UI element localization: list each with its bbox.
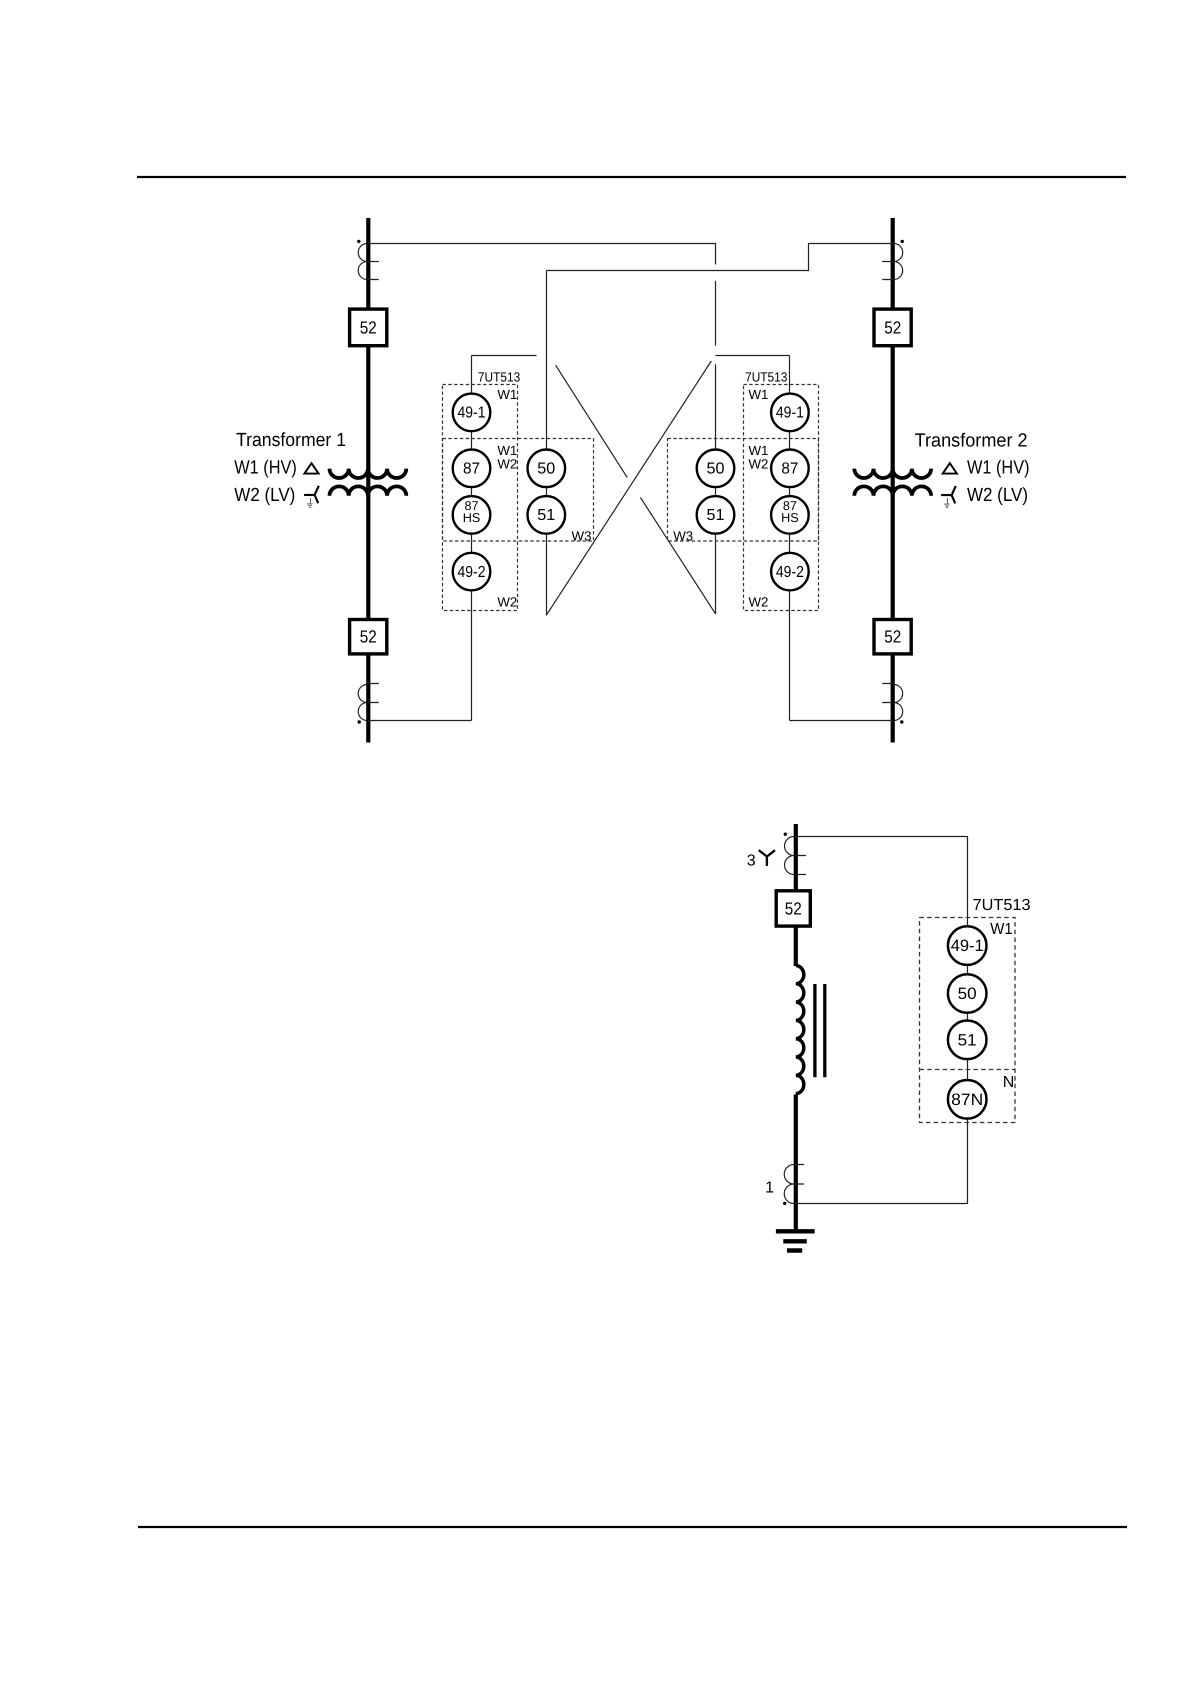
CT 1 bottom: polarity dot <box>358 720 361 723</box>
CT 2 top: arcs <box>894 244 903 280</box>
svg-text:W2: W2 <box>749 457 769 472</box>
svg-text:49-2: 49-2 <box>458 564 486 581</box>
relay3 function 51 <box>948 1021 987 1060</box>
bottom rule <box>138 1526 1127 1528</box>
wire: relay1 main column to CT1 bottom <box>368 720 471 722</box>
wire: x=715.5 segment below crossing break <box>715 281 717 346</box>
wire: relay2 main column stub (horizontal y=355) <box>716 355 790 357</box>
relay 1 dashed box wide (W1W2/W3) <box>443 439 594 542</box>
relay1 function 87HS <box>453 496 491 534</box>
ground symbol <box>776 1231 815 1250</box>
svg-text:51: 51 <box>537 507 555 524</box>
CT 4 (bottom, 1x) arcs <box>784 1165 794 1204</box>
wire: CT3 secondary top to relay column <box>796 837 968 1204</box>
svg-text:W1: W1 <box>749 387 769 402</box>
breaker 52 bottom-left <box>350 620 387 654</box>
svg-text:87: 87 <box>463 461 480 478</box>
svg-text:W2: W2 <box>497 457 517 472</box>
wire: relay2 main column (x=789.9) <box>789 356 791 721</box>
breaker 52 bottom-right <box>874 620 911 654</box>
svg-text:51: 51 <box>707 507 725 524</box>
wire: relay2 W3 column (x=715.5) <box>715 364 717 614</box>
svg-text:7UT513: 7UT513 <box>973 897 1031 914</box>
svg-text:87N: 87N <box>951 1091 983 1109</box>
wire: relay1 main column (x=471.5) <box>471 356 473 721</box>
svg-text:7UT513: 7UT513 <box>745 370 787 385</box>
relay2 function 87 <box>771 450 809 488</box>
CT 2 top: secondary ticks <box>882 262 893 280</box>
relay1 function 51 <box>528 496 566 534</box>
transformer T1 winding W2 (lower scallops) <box>330 486 407 495</box>
CT 4 secondary ticks <box>796 1165 804 1185</box>
svg-text:50: 50 <box>958 985 977 1003</box>
svg-text:49-2: 49-2 <box>776 564 804 581</box>
svg-text:W3: W3 <box>572 529 592 544</box>
relay2 function 51 <box>697 496 735 534</box>
svg-text:52: 52 <box>884 317 901 337</box>
feeder bus 2 (right thick line) <box>891 218 895 743</box>
feeder bus 1 (left thick line) <box>366 218 370 743</box>
wire: relay1 main column stub (horizontal y=355.3) <box>472 355 537 357</box>
CT 4 polarity dot <box>783 1202 786 1205</box>
svg-text:W2 (LV): W2 (LV) <box>967 485 1028 506</box>
auto-transformer bus (thick vertical, upper part) <box>794 824 798 966</box>
transformer T2 winding W2 (lower scallops) <box>854 486 931 495</box>
relay1 function 87 <box>453 450 491 488</box>
relay1 function 49-1 <box>453 394 491 432</box>
transformer T2 winding W1 (upper scallops) <box>854 469 931 478</box>
relay 3 dashed box <box>920 918 1016 1123</box>
CT 2 bottom: secondary ticks <box>882 684 893 703</box>
relay 1 dashed box main (W1/W2) <box>443 385 518 611</box>
wire: relay2 main column to CT2 bottom <box>790 720 893 722</box>
wire: relay1 W3 column (x=546.3) <box>546 271 548 616</box>
reactor coil <box>796 966 804 1094</box>
core bar 1 <box>813 984 816 1077</box>
wire: CT2 top secondary to relay 1 (y=243.4, step down, y=270.4) <box>547 244 893 271</box>
wye symbol T1 <box>304 486 319 503</box>
svg-text:87: 87 <box>781 461 798 478</box>
svg-text:W2: W2 <box>749 595 769 610</box>
CT 1 bottom: secondary ticks <box>368 684 379 703</box>
relay1 function 50 <box>528 450 566 488</box>
relay1 function 49-2 <box>453 553 491 591</box>
relay3 function 87N <box>948 1080 987 1119</box>
wye symbol at CT3 <box>759 850 775 866</box>
svg-text:Transformer 1: Transformer 1 <box>236 430 346 451</box>
svg-text:3: 3 <box>747 853 756 870</box>
svg-text:W1: W1 <box>497 387 517 402</box>
svg-text:W1 (HV): W1 (HV) <box>234 457 296 478</box>
wire: CT1 top secondary to relay 2 (y=243.4 then down x=715.5) <box>368 244 715 265</box>
relay3 function 49-1 <box>948 926 987 965</box>
svg-text:7UT513: 7UT513 <box>478 370 520 385</box>
relay2 function 49-2 <box>771 553 809 591</box>
CT 2 top: polarity dot <box>901 240 904 243</box>
svg-text:W2 (LV): W2 (LV) <box>234 485 295 506</box>
CT 2 bottom: arcs <box>894 685 903 721</box>
wire: diagonal B lower segment (X crossing to relay2 W3 bottom) <box>640 497 715 614</box>
svg-text:Transformer 2: Transformer 2 <box>915 430 1028 451</box>
svg-text:50: 50 <box>537 461 555 478</box>
wire: diagonal A (relay2 stub to relay1 W3 bottom) <box>546 361 711 615</box>
svg-text:52: 52 <box>360 317 377 337</box>
delta symbol T2 <box>943 463 957 473</box>
relay 2 dashed box wide (W1W2/W3) <box>668 439 819 542</box>
relay 2 dashed box main (W1/W2) <box>744 385 819 611</box>
svg-text:49-1: 49-1 <box>776 405 804 422</box>
relay2 function 49-1 <box>771 394 809 432</box>
svg-text:W1 (HV): W1 (HV) <box>967 457 1030 478</box>
svg-text:N: N <box>1003 1074 1015 1091</box>
svg-text:1: 1 <box>765 1180 774 1197</box>
breaker 52 top-right <box>874 309 911 346</box>
svg-text:50: 50 <box>707 461 725 478</box>
svg-text:52: 52 <box>884 627 901 647</box>
svg-text:W2: W2 <box>497 595 517 610</box>
relay3 function 50 <box>948 974 987 1013</box>
breaker 52 (bottom diagram) <box>776 891 810 926</box>
wye T1 earth mark <box>307 498 312 508</box>
svg-text:49-1: 49-1 <box>951 937 984 955</box>
CT 1 top: arcs <box>358 244 367 280</box>
top rule <box>137 176 1126 178</box>
CT 1 top: secondary ticks <box>368 262 379 280</box>
wye symbol T2 <box>941 486 956 503</box>
svg-text:W3: W3 <box>673 529 693 544</box>
delta symbol T1 <box>304 463 318 473</box>
svg-text:51: 51 <box>958 1031 977 1049</box>
transformer T1 winding W1 (upper scallops) <box>330 469 407 478</box>
svg-text:52: 52 <box>360 627 377 647</box>
relay2 function 50 <box>697 450 735 488</box>
svg-text:49-1: 49-1 <box>458 405 486 422</box>
breaker 52 top-left <box>350 309 387 346</box>
svg-text:52: 52 <box>785 898 802 918</box>
CT 2 bottom: polarity dot <box>900 720 903 723</box>
svg-text:HS: HS <box>781 510 799 525</box>
CT 1 top: polarity dot <box>357 240 360 243</box>
CT 1 bottom: arcs <box>358 685 367 721</box>
CT 3 (top, 3x) polarity dot <box>784 833 787 836</box>
relay 3 dashed divider (N section) <box>920 1069 1016 1071</box>
CT 3 secondary ticks <box>796 856 806 875</box>
svg-text:HS: HS <box>463 510 481 525</box>
wire: diagonal B upper segment (relay1 stub to X crossing) <box>556 365 628 477</box>
svg-text:W1: W1 <box>990 921 1012 938</box>
wye T2 earth mark <box>944 498 949 508</box>
CT 3 arcs <box>785 837 795 875</box>
relay2 function 87HS <box>771 496 809 534</box>
auto-transformer bus (thick vertical, lower part) <box>794 1095 798 1231</box>
core bar 2 <box>823 984 826 1077</box>
